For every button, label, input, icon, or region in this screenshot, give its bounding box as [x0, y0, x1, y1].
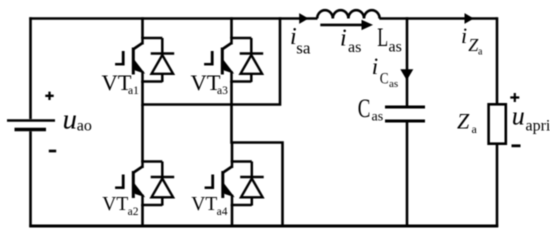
arrow i_as head: [362, 20, 374, 30]
wire VT_a3 emitter lead: [230, 81, 233, 144]
transistor VT_a1: [115, 37, 174, 83]
wire output node a: mid wire to top rail: [143, 17, 281, 104]
svg-text:u: u: [63, 103, 78, 135]
svg-text:apri: apri: [526, 118, 550, 135]
transistor VT_a3: [204, 37, 263, 83]
svg-text:sa: sa: [296, 39, 311, 58]
capacitor C_as top plate: [385, 106, 425, 109]
inductor L_as: [317, 10, 379, 18]
transistor VT_a2: [115, 161, 174, 207]
svg-text:as: as: [372, 110, 384, 125]
arrow i_Za on top rail: [465, 13, 474, 24]
svg-text:a: a: [472, 122, 478, 136]
battery u_ao bottom plate: [15, 128, 47, 132]
wire VT_a4 emitter lead: [231, 205, 234, 228]
arrow i_Cas down on C branch: [400, 69, 413, 80]
svg-text:a: a: [478, 47, 483, 58]
svg-text:i: i: [340, 26, 347, 52]
plus sign of u_ao: [45, 92, 53, 100]
wire C_as branch upper: [406, 17, 409, 105]
wire left upper: [29, 17, 32, 119]
wire VT_a4 collector lead: [231, 143, 234, 163]
wire load branch lower: [496, 144, 499, 228]
transistor VT_a4: [205, 161, 264, 207]
svg-text:a4: a4: [217, 206, 228, 218]
svg-text:L: L: [377, 23, 388, 52]
minus sign of u_ao: [49, 150, 56, 153]
arrow i_sa on top rail: [299, 13, 308, 24]
svg-text:as: as: [389, 38, 402, 55]
battery u_ao top plate: [7, 119, 55, 122]
svg-text:ao: ao: [77, 118, 92, 135]
wire i_as arrow shaft: [320, 24, 362, 27]
wire bottom rail: [29, 224, 498, 227]
svg-text:a2: a2: [128, 206, 139, 218]
svg-text:VT: VT: [102, 194, 128, 215]
svg-text:as: as: [389, 78, 398, 90]
svg-text:a1: a1: [128, 85, 139, 97]
wire C_as branch lower: [406, 123, 409, 228]
wire right leg mid to bottom rail: [232, 143, 283, 228]
wire VT_a2 collector lead: [141, 105, 144, 163]
svg-text:as: as: [348, 39, 361, 56]
minus sign of u_apri: [512, 144, 521, 147]
svg-text:C: C: [380, 70, 389, 87]
plus sign of u_apri: [510, 93, 519, 102]
svg-text:a3: a3: [217, 85, 228, 97]
wire VT_a2 emitter lead: [141, 205, 144, 228]
wire VT_a1 emitter lead: [141, 81, 144, 106]
svg-text:VT: VT: [191, 194, 217, 215]
svg-text:i: i: [461, 23, 467, 48]
svg-text:Z: Z: [457, 109, 470, 134]
svg-text:C: C: [358, 94, 371, 123]
wire VT_a1 collector lead: [141, 17, 144, 38]
load impedance Z_a rectangle: [489, 104, 506, 143]
capacitor C_as bottom plate: [385, 120, 425, 123]
wire left lower: [29, 131, 32, 227]
wire load branch upper: [496, 17, 499, 104]
wire top rail: [29, 17, 317, 20]
wire VT_a3 collector lead: [230, 17, 233, 38]
svg-text:u: u: [512, 102, 525, 131]
svg-text:i: i: [372, 54, 378, 79]
